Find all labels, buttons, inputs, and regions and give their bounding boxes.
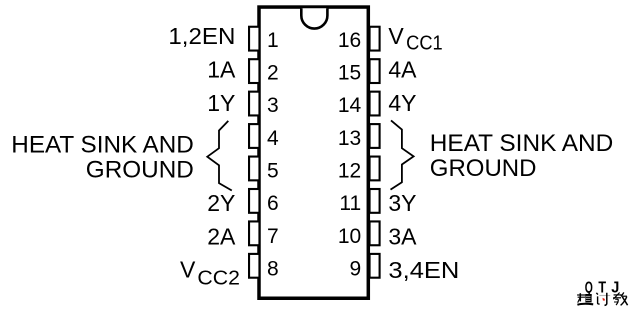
svg-text:3: 3 (267, 94, 279, 117)
svg-text:VCC1: VCC1 (388, 23, 442, 55)
pin 2 box (249, 59, 259, 83)
svg-text:4A: 4A (388, 57, 417, 83)
svg-text:T: T (598, 279, 606, 296)
svg-text:3Y: 3Y (388, 190, 416, 216)
pin 1 box (249, 27, 259, 51)
svg-text:13: 13 (338, 127, 361, 150)
right heat-sink brace (pins 13,12) (391, 120, 414, 189)
svg-text:16: 16 (338, 29, 361, 52)
pin-1 index notch (301, 8, 327, 28)
watermark character 教 (613, 292, 628, 305)
pin 8 box (249, 254, 259, 278)
svg-text:1A: 1A (207, 57, 236, 83)
svg-text:VCC2: VCC2 (180, 257, 240, 290)
watermark character 趣 (577, 293, 593, 305)
svg-text:12: 12 (338, 160, 361, 183)
pin 3 box (249, 92, 259, 116)
svg-text:3,4EN: 3,4EN (388, 257, 459, 283)
svg-text:2Y: 2Y (207, 190, 235, 216)
svg-text:6: 6 (267, 192, 279, 215)
svg-text:2A: 2A (207, 224, 236, 250)
svg-text:14: 14 (338, 94, 362, 117)
svg-text:3A: 3A (388, 224, 417, 250)
right HEAT SINK AND GROUND label (430, 130, 614, 182)
svg-text:15: 15 (338, 62, 361, 85)
svg-text:GROUND: GROUND (430, 155, 537, 182)
svg-text:1,2EN: 1,2EN (168, 23, 235, 49)
svg-text:8: 8 (267, 257, 279, 280)
IC body U1 package outline (259, 7, 368, 298)
svg-text:1: 1 (267, 29, 279, 52)
watermark character 讨 (gray bar, red dot accent) (596, 293, 610, 306)
svg-text:HEAT SINK AND: HEAT SINK AND (11, 131, 194, 158)
svg-text:9: 9 (350, 257, 362, 280)
svg-text:4Y: 4Y (388, 90, 416, 116)
svg-text:HEAT SINK AND: HEAT SINK AND (430, 130, 614, 157)
pin 9 box (370, 254, 380, 278)
watermark QTJ logo text (585, 279, 620, 296)
pin 16 box (370, 27, 380, 51)
svg-text:11: 11 (339, 192, 361, 215)
pin 5 box (249, 157, 259, 181)
svg-text:2: 2 (267, 62, 279, 85)
svg-text:10: 10 (338, 225, 361, 248)
svg-text:Q: Q (585, 279, 593, 296)
left heat-sink brace (pins 4,5) (207, 121, 232, 191)
pin 11 box (370, 189, 380, 213)
svg-text:4: 4 (267, 127, 279, 150)
pin 15 box (370, 59, 380, 83)
svg-text:5: 5 (267, 160, 279, 183)
svg-text:7: 7 (267, 225, 279, 248)
pin 12 box (370, 157, 380, 181)
svg-text:GROUND: GROUND (86, 157, 194, 184)
left HEAT SINK AND GROUND label (11, 131, 194, 183)
pin 7 box (249, 221, 259, 245)
pin 4 box (249, 124, 259, 148)
pin 6 box (249, 189, 259, 213)
pin 13 box (370, 124, 380, 148)
pin 14 box (370, 92, 380, 116)
pin 10 box (370, 221, 380, 245)
svg-text:1Y: 1Y (207, 90, 235, 116)
